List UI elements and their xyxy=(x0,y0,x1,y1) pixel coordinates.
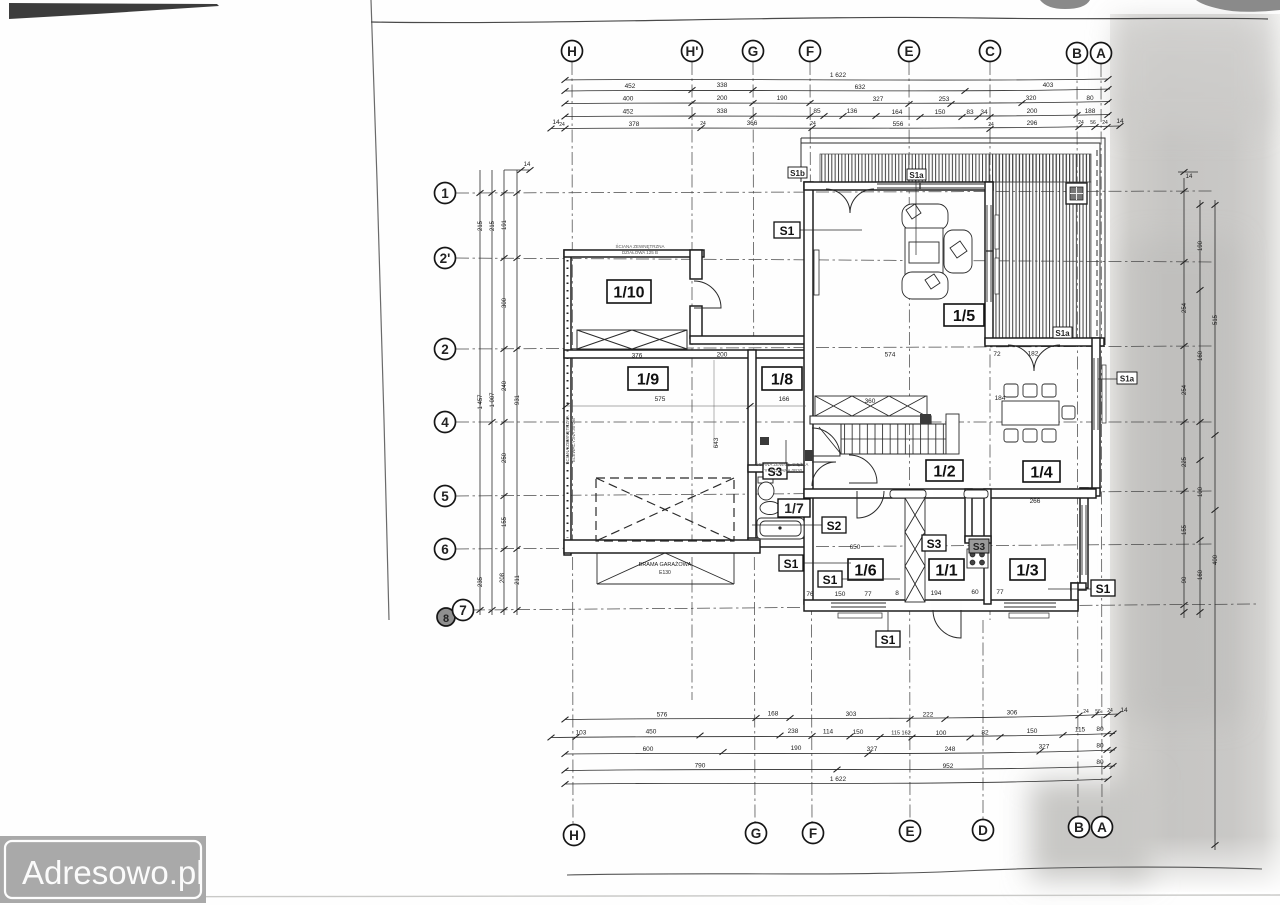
svg-text:BRAMA GARAŻOWA: BRAMA GARAŻOWA xyxy=(639,561,692,568)
wall east of 1/5 xyxy=(985,182,993,344)
flue block hall xyxy=(760,437,769,445)
svg-text:168: 168 xyxy=(768,711,779,718)
bubble 2' left xyxy=(435,248,456,269)
svg-text:F: F xyxy=(809,826,817,841)
svg-text:14: 14 xyxy=(1120,707,1128,714)
svg-text:576: 576 xyxy=(657,712,668,719)
svg-text:200: 200 xyxy=(717,352,728,359)
svg-text:253: 253 xyxy=(939,96,950,103)
svg-text:1/4: 1/4 xyxy=(1030,465,1052,482)
svg-text:1/5: 1/5 xyxy=(953,308,975,325)
svg-text:56: 56 xyxy=(1095,709,1101,715)
lintel X band above stairs xyxy=(815,396,927,416)
scan page bottom wavy line xyxy=(567,867,1262,875)
bubble E bottom xyxy=(900,821,921,842)
svg-text:155: 155 xyxy=(1182,524,1188,535)
svg-text:S3: S3 xyxy=(927,537,942,551)
svg-text:90: 90 xyxy=(1182,576,1188,583)
bubble 1 left xyxy=(435,183,456,204)
svg-text:240: 240 xyxy=(502,380,508,391)
bubble F top xyxy=(800,41,821,62)
door arc 1/6 top xyxy=(857,491,884,518)
svg-text:77: 77 xyxy=(864,591,872,598)
grid line G vertical xyxy=(753,62,755,822)
wall top of room 1/10 xyxy=(564,250,704,257)
svg-text:1 622: 1 622 xyxy=(830,776,847,783)
wall bath 1/7 top xyxy=(748,465,810,472)
dining table group xyxy=(1002,384,1075,442)
wall top of 1/9 xyxy=(564,350,808,358)
svg-text:ŚCIANA ZEWNĘTRZNA: ŚCIANA ZEWNĘTRZNA xyxy=(563,415,570,464)
svg-text:250: 250 xyxy=(502,452,508,463)
room label 1/7 xyxy=(778,499,810,517)
svg-text:24: 24 xyxy=(1102,120,1108,126)
wall interior y491 xyxy=(804,489,1096,498)
svg-text:85: 85 xyxy=(813,108,821,115)
svg-text:150: 150 xyxy=(1027,728,1038,735)
svg-text:327: 327 xyxy=(867,746,878,753)
svg-text:S1: S1 xyxy=(784,557,799,571)
door arc main entrance bottom xyxy=(933,610,961,638)
X column between 1/6 and 1/1 xyxy=(905,498,925,602)
svg-text:215: 215 xyxy=(490,220,496,231)
S1b small label top xyxy=(788,167,807,178)
bottom dimension chains xyxy=(551,714,1118,784)
garage dashed car rect xyxy=(596,478,734,541)
bubble B top xyxy=(1067,43,1088,64)
bubble H bottom xyxy=(564,825,585,846)
grid line 7 horizontal xyxy=(472,604,1258,610)
wall east upper x1096 xyxy=(1092,338,1100,493)
interior wall sill pieces hall y491 xyxy=(890,490,926,498)
grid line 5 horizontal xyxy=(456,491,1213,496)
svg-text:515: 515 xyxy=(1213,314,1219,325)
wall east lowest xyxy=(1071,583,1078,609)
svg-text:24: 24 xyxy=(1083,709,1089,715)
room label 1/9 xyxy=(628,367,668,390)
windows east lower xyxy=(1082,505,1086,575)
S3 dark label kitchen xyxy=(969,539,989,553)
svg-text:14: 14 xyxy=(524,162,531,168)
svg-text:300: 300 xyxy=(502,297,508,308)
S1 label top with leader xyxy=(774,222,862,238)
svg-text:184: 184 xyxy=(995,395,1006,402)
svg-text:166: 166 xyxy=(779,396,790,403)
svg-text:952: 952 xyxy=(943,763,954,770)
svg-text:190: 190 xyxy=(1198,240,1204,251)
room label 1/3 xyxy=(1010,559,1045,580)
wall right of 1/10 lower xyxy=(690,306,702,338)
bubble A top xyxy=(1091,43,1112,64)
grid line D vertical xyxy=(982,620,984,819)
svg-text:72: 72 xyxy=(993,351,1001,358)
svg-text:S3: S3 xyxy=(973,542,986,553)
svg-text:164: 164 xyxy=(892,109,903,116)
svg-text:14: 14 xyxy=(1116,118,1124,125)
windows bottom wall xyxy=(831,603,1056,618)
svg-text:60: 60 xyxy=(971,589,979,596)
svg-text:80: 80 xyxy=(1086,95,1094,102)
staircase xyxy=(810,414,959,454)
room label 1/1 xyxy=(929,559,964,580)
garage door triangle xyxy=(597,553,734,584)
svg-text:1/10: 1/10 xyxy=(613,285,644,302)
svg-text:235: 235 xyxy=(478,576,484,587)
svg-text:24: 24 xyxy=(1107,708,1113,714)
S2 label with leader xyxy=(752,517,846,533)
svg-text:160: 160 xyxy=(1198,350,1204,361)
svg-text:H': H' xyxy=(686,44,699,59)
door arcs entrance north double xyxy=(826,189,874,213)
S1 label garage side 1 xyxy=(779,555,851,571)
flue block dark by stairs xyxy=(920,414,931,424)
wall bottom exterior xyxy=(804,600,1078,611)
svg-text:S1a: S1a xyxy=(1120,375,1135,384)
svg-text:5: 5 xyxy=(441,489,449,504)
bubble A bottom xyxy=(1092,817,1113,838)
svg-text:150: 150 xyxy=(935,109,946,116)
svg-text:115 162: 115 162 xyxy=(891,731,910,737)
bubble 7 left xyxy=(453,600,474,621)
grid line H' vertical xyxy=(691,62,693,700)
svg-text:320: 320 xyxy=(1026,95,1037,102)
room label 1/4 xyxy=(1023,461,1060,482)
flue block dark on spine xyxy=(805,450,813,461)
faint bottom line xyxy=(0,895,1280,897)
wall between 1/9 and 1/8 xyxy=(748,350,756,546)
svg-text:190: 190 xyxy=(777,95,788,102)
door arc into S3 hall xyxy=(849,455,877,483)
wall between 1/1 and 1/3 xyxy=(984,489,991,604)
wall spine F line xyxy=(804,182,813,604)
svg-text:C: C xyxy=(985,44,995,59)
svg-text:575: 575 xyxy=(655,396,666,403)
svg-text:303: 303 xyxy=(846,711,857,718)
svg-text:7: 7 xyxy=(459,603,467,618)
door gaps (white) xyxy=(805,183,1061,610)
grid line E vertical xyxy=(909,62,910,820)
svg-text:306: 306 xyxy=(1007,710,1018,717)
scan page left edge xyxy=(371,0,389,620)
svg-text:1/7: 1/7 xyxy=(784,500,804,516)
svg-text:338: 338 xyxy=(717,82,728,89)
bubble H' top xyxy=(682,41,703,62)
svg-text:376: 376 xyxy=(632,353,643,360)
grid line 4 horizontal xyxy=(456,421,1213,423)
svg-text:254: 254 xyxy=(1182,302,1188,313)
svg-text:114: 114 xyxy=(823,729,834,736)
thin interior guide line 1/9 xyxy=(566,405,806,407)
svg-text:254: 254 xyxy=(1182,384,1188,395)
wall kitchen nook horizontal xyxy=(965,536,991,543)
svg-text:1: 1 xyxy=(441,186,449,201)
S1 label right side xyxy=(1048,580,1115,596)
wall right of 1/10 upper xyxy=(690,250,702,279)
terrace hatch right block xyxy=(986,154,1091,340)
svg-text:266: 266 xyxy=(1030,498,1041,505)
walls xyxy=(564,182,1104,611)
wall kitchen nook vertical xyxy=(965,489,972,541)
sofa group living room xyxy=(902,204,972,299)
svg-text:Adresowo.pl: Adresowo.pl xyxy=(22,854,204,891)
grid line B vertical xyxy=(1077,64,1078,816)
svg-text:360: 360 xyxy=(865,398,876,405)
svg-text:1/9: 1/9 xyxy=(637,372,659,389)
bathroom fixtures 1/7 xyxy=(757,477,804,539)
svg-text:S1a: S1a xyxy=(1055,329,1070,338)
wall garage bottom xyxy=(564,540,760,553)
roof outline over terrace xyxy=(801,138,1105,345)
svg-text:B: B xyxy=(1074,820,1084,835)
door arc stairs upper xyxy=(812,428,840,456)
svg-text:24: 24 xyxy=(988,122,994,128)
window east 1/5 xyxy=(986,205,999,302)
svg-text:DZIAŁOWA 125 B: DZIAŁOWA 125 B xyxy=(622,250,658,255)
svg-text:8: 8 xyxy=(895,590,899,597)
bubble 4 left xyxy=(435,412,456,433)
grid line 2 horizontal xyxy=(456,346,1213,349)
svg-text:215: 215 xyxy=(478,220,484,231)
svg-text:103: 103 xyxy=(576,730,587,737)
svg-text:160: 160 xyxy=(1198,569,1204,580)
S1 label below house xyxy=(876,612,900,647)
svg-text:24: 24 xyxy=(559,122,565,128)
grid line H vertical xyxy=(572,62,573,824)
stove kitchen xyxy=(967,549,988,568)
bubble G bottom xyxy=(746,823,767,844)
svg-text:136: 136 xyxy=(847,108,858,115)
svg-text:80: 80 xyxy=(1096,726,1104,733)
svg-text:248: 248 xyxy=(945,746,956,753)
svg-text:1 622: 1 622 xyxy=(830,72,847,79)
svg-text:E: E xyxy=(905,824,914,839)
svg-text:ELEWACYJNA 30 OB: ELEWACYJNA 30 OB xyxy=(571,418,576,462)
svg-text:194: 194 xyxy=(931,590,942,597)
interior dimension texts xyxy=(632,351,1041,599)
scan page top edge xyxy=(371,17,1268,22)
svg-text:76: 76 xyxy=(806,591,814,598)
room label 1/8 xyxy=(762,367,802,390)
room label 1/2 xyxy=(926,460,963,481)
svg-text:403: 403 xyxy=(1043,82,1054,89)
room label 1/6 xyxy=(848,559,883,580)
svg-text:150: 150 xyxy=(835,591,846,598)
svg-text:378: 378 xyxy=(629,121,640,128)
svg-text:A: A xyxy=(1097,820,1107,835)
svg-text:296: 296 xyxy=(1027,120,1038,127)
right dimension chains xyxy=(1178,172,1215,850)
bubble H top xyxy=(562,41,583,62)
svg-text:188: 188 xyxy=(1085,108,1096,115)
svg-text:150: 150 xyxy=(853,729,864,736)
svg-text:82: 82 xyxy=(981,730,989,737)
svg-text:100: 100 xyxy=(1198,486,1204,497)
bubble 6 left xyxy=(435,539,456,560)
room label 1/10 xyxy=(607,280,651,303)
S1a small label right with leader xyxy=(1098,372,1137,384)
svg-text:191: 191 xyxy=(502,219,508,230)
bubble C top xyxy=(980,41,1001,62)
bubble B bottom xyxy=(1069,817,1090,838)
wall step1 xyxy=(1080,488,1100,496)
bubble 2 left xyxy=(435,339,456,360)
svg-text:238: 238 xyxy=(788,728,799,735)
bubble E top xyxy=(899,41,920,62)
svg-text:650: 650 xyxy=(850,544,861,551)
svg-text:338: 338 xyxy=(717,108,728,115)
svg-text:34: 34 xyxy=(980,109,988,116)
wall step2 xyxy=(1071,583,1086,590)
window sill hallway xyxy=(814,250,819,295)
bubble D bottom xyxy=(973,820,994,841)
svg-text:1/8: 1/8 xyxy=(771,372,793,389)
room label 1/5 xyxy=(944,304,984,326)
svg-text:ŚCIANA ZEWNĘTRZNA: ŚCIANA ZEWNĘTRZNA xyxy=(615,242,664,249)
svg-text:24: 24 xyxy=(810,121,816,127)
wall left exterior xyxy=(564,250,571,555)
wall bath 1/7 bottom xyxy=(748,538,812,547)
svg-text:24: 24 xyxy=(1078,120,1084,126)
S1a small label top center xyxy=(907,169,926,255)
grid line C vertical xyxy=(989,62,991,620)
grid line F vertical xyxy=(810,62,812,822)
svg-text:2: 2 xyxy=(441,342,449,357)
grid line 2' horizontal xyxy=(456,258,1213,262)
svg-text:14: 14 xyxy=(1186,174,1193,180)
wall south of terrace y341 xyxy=(985,338,1104,346)
door arc 1/10 xyxy=(694,281,721,308)
S3 label kitchen hall xyxy=(922,535,946,551)
svg-text:450: 450 xyxy=(646,729,657,736)
svg-text:574: 574 xyxy=(885,352,896,359)
svg-text:S1a: S1a xyxy=(909,171,924,180)
svg-text:222: 222 xyxy=(923,712,934,719)
svg-text:F: F xyxy=(806,44,814,59)
svg-text:E: E xyxy=(904,44,913,59)
svg-text:80: 80 xyxy=(1096,743,1104,750)
wall hallway bottom xyxy=(690,336,808,344)
svg-text:77: 77 xyxy=(996,589,1004,596)
S1a small label terrace xyxy=(1053,327,1072,338)
svg-text:208: 208 xyxy=(500,572,506,583)
top dimension chains xyxy=(551,79,1120,129)
svg-text:452: 452 xyxy=(623,109,634,116)
window top 1/5 xyxy=(877,183,984,189)
svg-text:B: B xyxy=(1072,46,1082,61)
svg-text:A: A xyxy=(1096,46,1106,61)
svg-text:S1: S1 xyxy=(881,633,896,647)
svg-text:E130: E130 xyxy=(659,570,671,576)
grid line 1 horizontal xyxy=(456,191,1213,193)
svg-text:TYNKOWANA 0B30: TYNKOWANA 0B30 xyxy=(762,468,803,473)
black corner wedge top-left xyxy=(9,3,219,19)
svg-text:1/3: 1/3 xyxy=(1016,563,1038,580)
svg-text:80: 80 xyxy=(1096,759,1104,766)
svg-text:S1: S1 xyxy=(823,573,838,587)
gray smudge top corners xyxy=(1040,0,1090,9)
svg-text:1 007: 1 007 xyxy=(490,392,496,408)
svg-text:S1: S1 xyxy=(1096,582,1111,596)
wall east lower x1085 xyxy=(1080,488,1088,588)
svg-text:1/1: 1/1 xyxy=(935,563,957,580)
bubble 5 left xyxy=(435,486,456,507)
svg-text:155: 155 xyxy=(502,516,508,527)
svg-text:6: 6 xyxy=(441,542,449,557)
svg-text:190: 190 xyxy=(791,745,802,752)
svg-text:931: 931 xyxy=(515,394,521,405)
svg-text:H: H xyxy=(567,44,577,59)
svg-text:556: 556 xyxy=(893,121,904,128)
svg-text:327: 327 xyxy=(873,96,884,103)
svg-text:1/6: 1/6 xyxy=(854,563,876,580)
terrace hatch top band xyxy=(820,154,1091,182)
svg-text:4: 4 xyxy=(441,415,449,430)
svg-text:400: 400 xyxy=(1213,554,1219,565)
svg-text:G: G xyxy=(748,44,759,59)
svg-text:366: 366 xyxy=(747,120,758,127)
scanner gray band right xyxy=(1110,14,1280,892)
insulation dots left wall xyxy=(567,260,569,538)
svg-text:632: 632 xyxy=(855,84,866,91)
window east wall x1096 xyxy=(1094,358,1106,430)
svg-text:S1b: S1b xyxy=(790,169,805,178)
svg-text:G: G xyxy=(751,826,762,841)
svg-text:H: H xyxy=(569,828,579,843)
svg-text:1/2: 1/2 xyxy=(933,464,955,481)
grid line 6 horizontal xyxy=(456,544,1213,549)
svg-text:200: 200 xyxy=(1027,108,1038,115)
svg-text:D: D xyxy=(978,823,988,838)
svg-text:600: 600 xyxy=(643,746,654,753)
watermark adresowo xyxy=(0,836,206,903)
svg-text:S1: S1 xyxy=(780,224,795,238)
svg-text:452: 452 xyxy=(625,83,636,90)
svg-text:1 457: 1 457 xyxy=(478,394,484,410)
svg-text:182: 182 xyxy=(1028,351,1039,358)
svg-text:8: 8 xyxy=(443,613,449,625)
wall top of 1/5 north xyxy=(804,182,993,190)
svg-text:211: 211 xyxy=(515,575,521,585)
window band X below 1/10 xyxy=(577,330,687,349)
grid line A vertical xyxy=(1101,64,1102,816)
svg-text:200: 200 xyxy=(717,95,728,102)
left dimension chains xyxy=(480,170,530,615)
svg-text:327: 327 xyxy=(1039,744,1050,751)
svg-text:400: 400 xyxy=(623,96,634,103)
bubble F bottom xyxy=(803,823,824,844)
S3 label bath xyxy=(763,440,787,479)
door arc stairs lower xyxy=(812,462,836,486)
bubble G top xyxy=(743,41,764,62)
S1 label garage side 2 xyxy=(818,571,900,587)
svg-text:83: 83 xyxy=(966,109,974,116)
svg-text:56: 56 xyxy=(1090,120,1096,126)
svg-text:225: 225 xyxy=(1182,456,1188,467)
svg-text:24: 24 xyxy=(700,121,706,127)
bubble 8 left partial xyxy=(437,608,455,626)
terrace hatch boundary xyxy=(820,154,1091,182)
door arcs terrace double xyxy=(1008,345,1060,371)
svg-text:100: 100 xyxy=(936,730,947,737)
svg-text:S2: S2 xyxy=(827,519,842,533)
svg-text:790: 790 xyxy=(695,763,706,770)
chimney block xyxy=(1066,183,1087,204)
svg-text:115: 115 xyxy=(1075,727,1086,734)
svg-text:2': 2' xyxy=(440,251,451,266)
svg-text:ŚCIANA ZEWNĘ. CIĘŻKA: ŚCIANA ZEWNĘ. CIĘŻKA xyxy=(756,460,809,467)
